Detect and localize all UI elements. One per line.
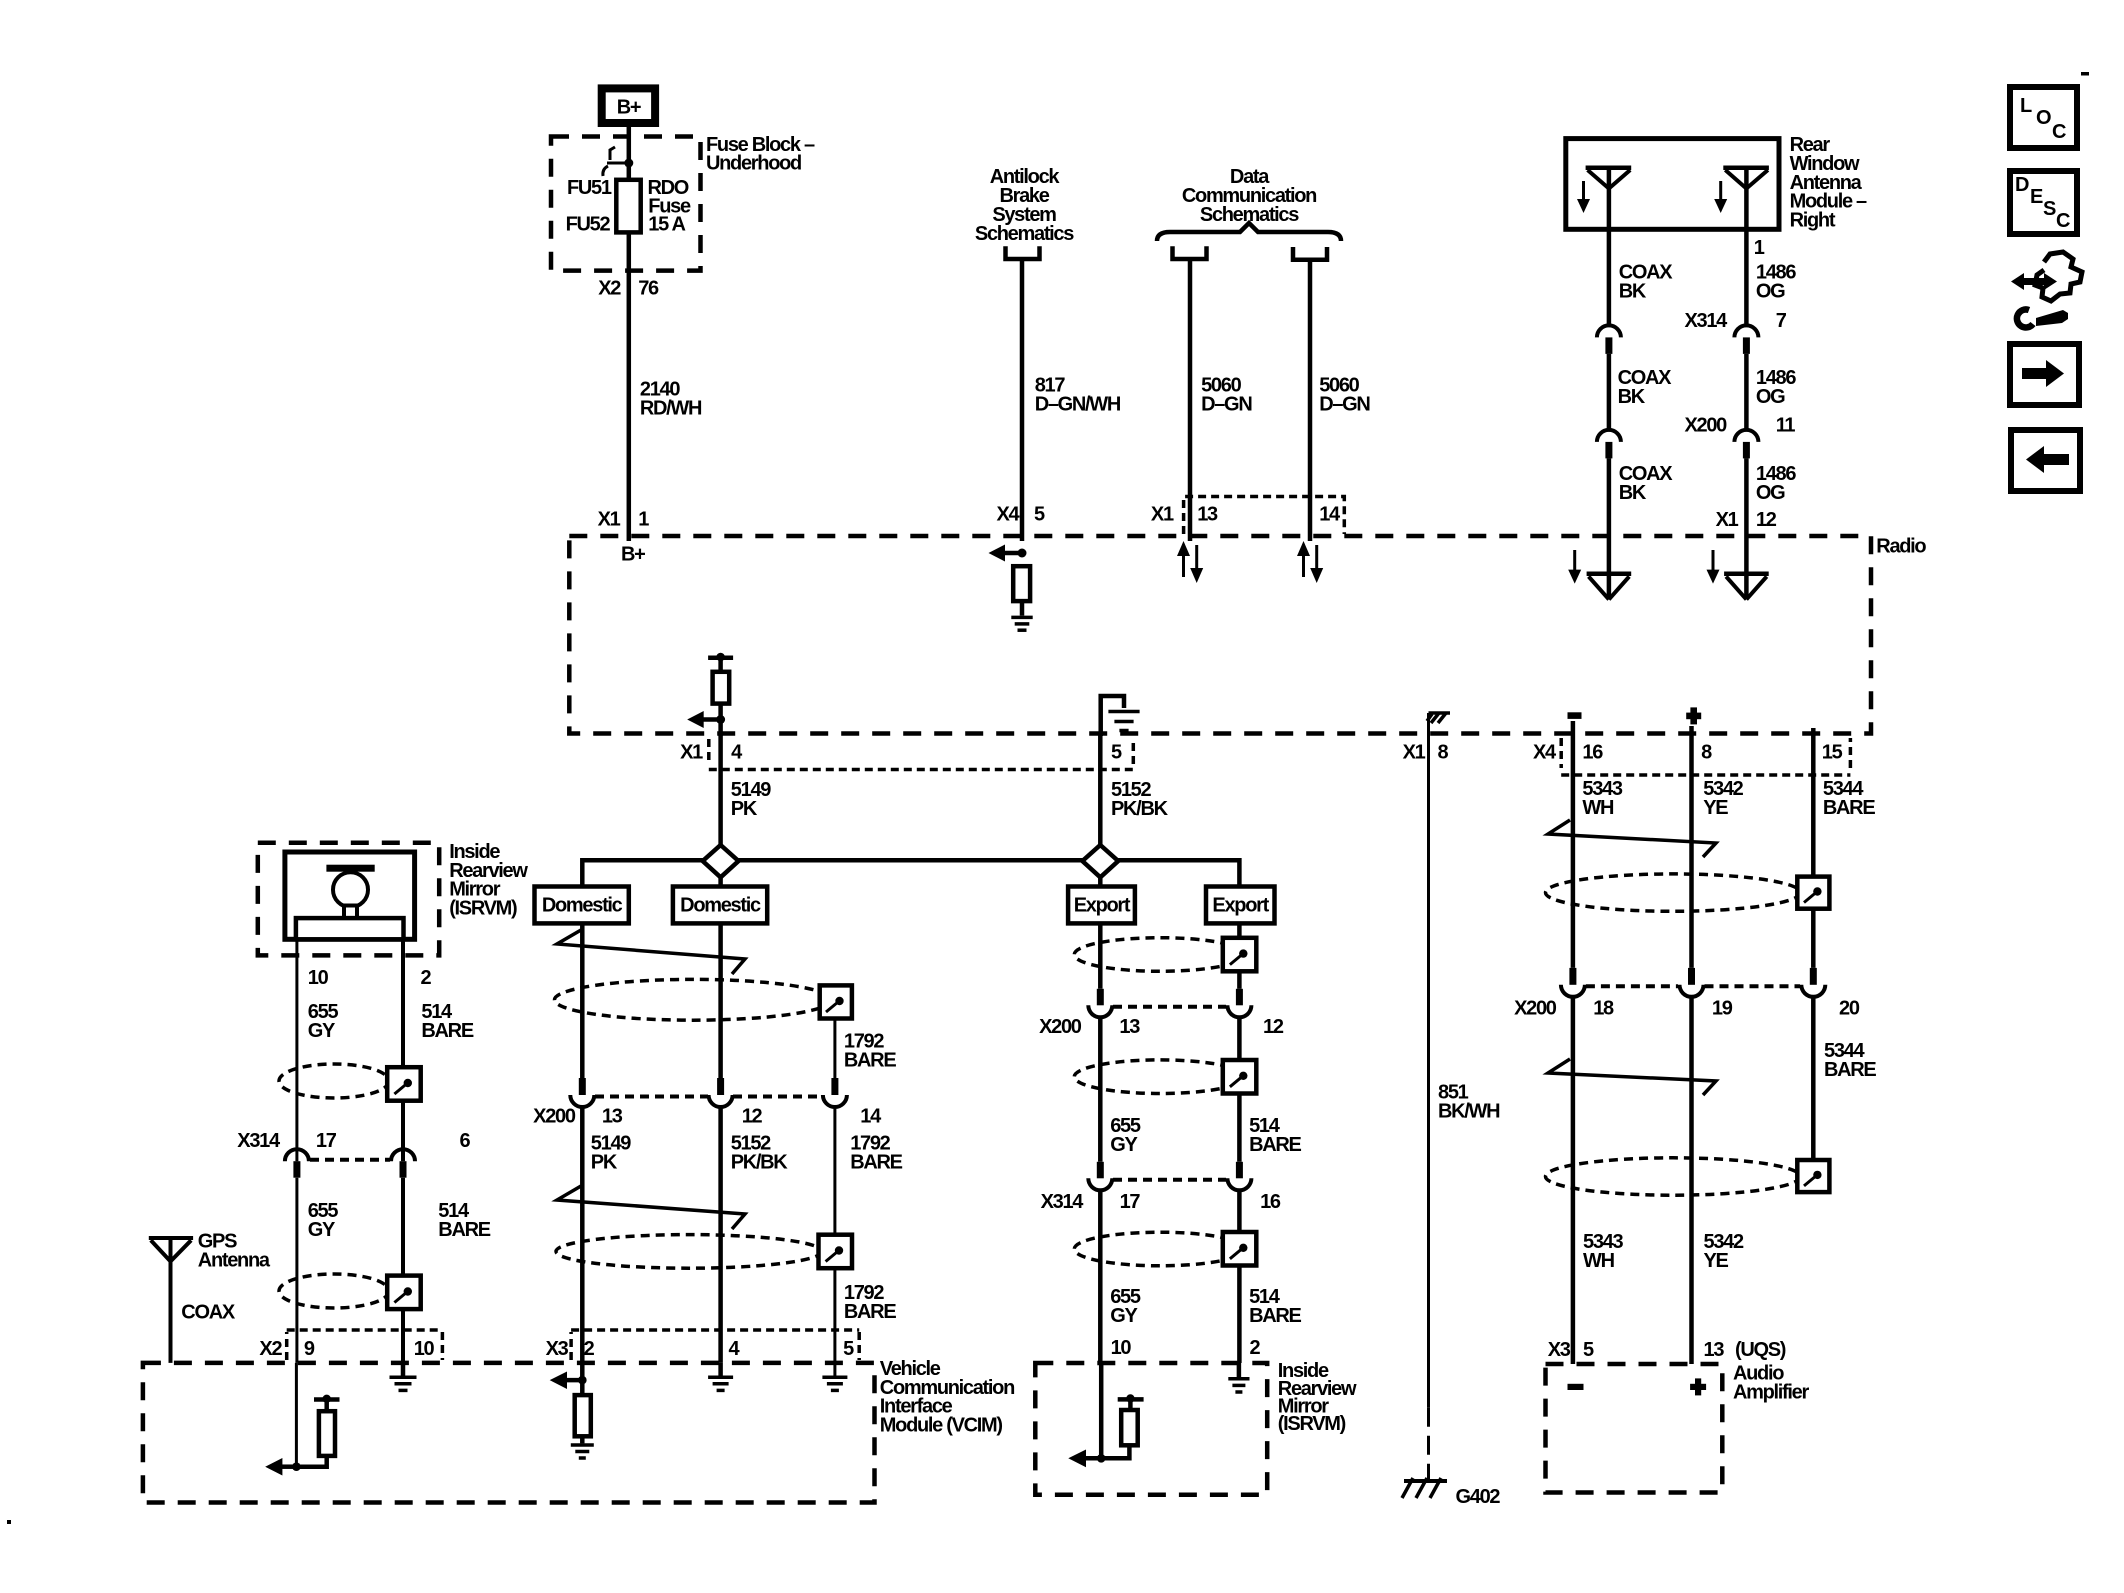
- svg-text:14: 14: [1319, 504, 1341, 526]
- wire label 5343 WH top: [1582, 778, 1622, 819]
- svg-text:15: 15: [1822, 742, 1843, 764]
- wire label 514 BARE export lower: [1249, 1286, 1301, 1327]
- wire 5344 BARE to lower shield: [1811, 997, 1816, 1160]
- shield drain box 3 export: [1223, 1232, 1257, 1266]
- svg-text:BARE: BARE: [438, 1219, 490, 1241]
- label RDO Fuse 15 A: [648, 177, 691, 236]
- wire 5152 PK/BK radio to diamond: [1098, 733, 1103, 887]
- wire 1486 OG from module pin 1: [1744, 168, 1749, 325]
- svg-text:X2: X2: [598, 278, 621, 300]
- wire label 5149 PK: [731, 779, 771, 820]
- wire 514 BARE export lower: [1237, 1190, 1242, 1232]
- shield ellipse upper amp: [1546, 874, 1801, 911]
- svg-text:5: 5: [843, 1338, 854, 1360]
- rear window antenna module box: [1566, 139, 1779, 230]
- component name ISRVM top: [449, 841, 528, 919]
- svg-text:11: 11: [1776, 415, 1796, 437]
- minus terminal pin16 inside radio: [1568, 712, 1582, 719]
- wire box to X314 pin6: [401, 1101, 405, 1162]
- icon box LOC: [2010, 87, 2077, 148]
- icon box arrow left: [2011, 430, 2080, 491]
- icon box arrow right: [2010, 344, 2079, 405]
- svg-text:10: 10: [308, 967, 329, 989]
- svg-text:X4: X4: [1533, 742, 1557, 764]
- svg-text:S: S: [2043, 198, 2056, 220]
- wire label 514 BARE upper left col: [421, 1001, 473, 1042]
- svg-text:WH: WH: [1583, 1250, 1615, 1272]
- wire label 655 GY lower left col: [308, 1200, 339, 1241]
- inline connector X200 pin12: [709, 1078, 733, 1107]
- wire box3 to ISRVM2: [1237, 1266, 1242, 1364]
- svg-text:2: 2: [584, 1338, 595, 1360]
- svg-text:Domestic: Domestic: [680, 895, 761, 917]
- svg-text:20: 20: [1839, 998, 1860, 1020]
- svg-text:BARE: BARE: [844, 1301, 896, 1323]
- wire 5060 D-GN right: [1308, 260, 1313, 541]
- svg-text:Export: Export: [1212, 895, 1269, 917]
- shield ellipse upper ISRVM col: [279, 1064, 389, 1098]
- svg-text:12: 12: [1756, 509, 1777, 531]
- wire bar to resistor: [718, 658, 723, 672]
- wire COAX BK mid: [1607, 354, 1612, 430]
- svg-text:Radio: Radio: [1876, 536, 1926, 558]
- svg-text:BK: BK: [1619, 281, 1647, 303]
- svg-text:12: 12: [742, 1106, 763, 1128]
- resistor pin9 branch VCIM: [319, 1411, 335, 1456]
- pin X2 9: [259, 1338, 314, 1360]
- GPS antenna symbol: [149, 1238, 193, 1261]
- mirror housing box: [285, 852, 415, 939]
- inline connector X314 pin 7 right: [1734, 325, 1758, 354]
- svg-text:OG: OG: [1756, 482, 1785, 504]
- terminal bar with node above resistor ISRVM2: [1118, 1394, 1144, 1410]
- wire 5152 PK/BK to VCIM: [718, 1107, 723, 1363]
- svg-text:Module (VCIM): Module (VCIM): [880, 1414, 1003, 1436]
- left arrow with junction pin9 VCIM: [265, 1458, 301, 1476]
- terminal hook symbol: [603, 147, 615, 176]
- wire label 1792 BARE bottom: [844, 1282, 896, 1323]
- wire label 5343 WH lower: [1583, 1231, 1623, 1272]
- svg-text:5: 5: [1034, 504, 1045, 526]
- svg-text:19: 19: [1712, 998, 1733, 1020]
- wire label 5342 YE lower: [1704, 1231, 1744, 1272]
- mirror symbol: [296, 865, 404, 940]
- shield drain box upper VCIM: [820, 985, 852, 1018]
- wire label 655 GY export lower: [1110, 1286, 1141, 1327]
- pin X4 16: [1533, 742, 1603, 764]
- svg-text:X1: X1: [1403, 742, 1426, 764]
- svg-text:WH: WH: [1582, 797, 1614, 819]
- svg-text:8: 8: [1438, 742, 1449, 764]
- pin X1 1: [598, 509, 650, 531]
- inline connector X200 pin12 export: [1227, 989, 1251, 1018]
- svg-text:X200: X200: [1514, 998, 1557, 1020]
- svg-text:X314: X314: [1684, 310, 1728, 332]
- shield ellipse lower amp: [1546, 1158, 1801, 1195]
- svg-text:76: 76: [638, 278, 659, 300]
- svg-text:X4: X4: [997, 504, 1021, 526]
- svg-text:FU52: FU52: [566, 214, 611, 236]
- svg-text:Right: Right: [1790, 209, 1836, 231]
- svg-text:GY: GY: [308, 1020, 336, 1042]
- svg-text:(ISRVM): (ISRVM): [449, 897, 517, 919]
- svg-text:X1: X1: [1151, 504, 1174, 526]
- svg-text:X2: X2: [259, 1338, 282, 1360]
- ground pin2 VCIM: [571, 1445, 594, 1458]
- wire 5343 WH to amp: [1571, 997, 1576, 1364]
- twisted pair symbol upper: [557, 930, 745, 974]
- svg-text:FU51: FU51: [567, 177, 612, 199]
- connector group dotted box X4 16-8-15: [1561, 738, 1850, 775]
- wire box1 to X200 export: [1237, 971, 1242, 989]
- ABS branch inside radio: left arrow: [989, 545, 1027, 562]
- svg-text:PK/BK: PK/BK: [731, 1152, 789, 1174]
- svg-text:PK/BK: PK/BK: [1111, 798, 1169, 820]
- connector dashes X200 row amp: [1586, 984, 1800, 988]
- inline connector X200 pin 11 right: [1734, 430, 1758, 458]
- svg-text:X3: X3: [546, 1338, 569, 1360]
- label X314 17 16 export: [1041, 1191, 1281, 1213]
- svg-text:YE: YE: [1703, 797, 1728, 819]
- wire 851 BK/WH: [1427, 733, 1430, 1479]
- splice diamond node pin5: [1082, 845, 1118, 877]
- shield ellipse lower VCIM: [556, 1235, 822, 1269]
- wire label 514 BARE export mid: [1249, 1115, 1301, 1156]
- minus terminal inside amp: [1568, 1384, 1584, 1390]
- svg-text:BK/WH: BK/WH: [1438, 1101, 1500, 1123]
- connector group dotted box X2 9-10: [287, 1330, 443, 1360]
- bidirectional arrows pin 14: [1297, 541, 1323, 583]
- wire 5060 D-GN left: [1188, 259, 1193, 541]
- svg-text:X3: X3: [1548, 1339, 1571, 1361]
- wire label 1486 OG row1: [1756, 262, 1796, 303]
- wire 5342 YE from radio pin8: [1689, 726, 1694, 968]
- label GPS Antenna: [198, 1231, 271, 1272]
- drain wire 1792 BARE upper: [833, 1019, 836, 1079]
- shield ellipse 3 export: [1074, 1232, 1245, 1266]
- wire label 851 BK/WH: [1438, 1081, 1500, 1122]
- inline connector X314 pin17 export: [1088, 1162, 1112, 1191]
- wire label 514 BARE lower left col: [438, 1200, 490, 1241]
- ISRVM dashed box bottom: [1035, 1363, 1267, 1495]
- drain wire 1792 BARE lower: [833, 1107, 836, 1363]
- svg-text:OG: OG: [1756, 386, 1785, 408]
- icon box DESC: [2010, 171, 2077, 234]
- junction node in fuse block: [607, 159, 633, 168]
- svg-text:D–GN: D–GN: [1319, 394, 1370, 416]
- svg-text:2: 2: [1250, 1337, 1261, 1359]
- wire label 2140 RD/WH: [640, 379, 702, 420]
- wire 5149 PK radio to diamond: [718, 733, 723, 887]
- svg-text:BARE: BARE: [1249, 1305, 1301, 1327]
- shield drain box lower ISRVM col: [387, 1276, 421, 1310]
- wire label 5060 D-GN left: [1201, 375, 1252, 416]
- wire label 5342 YE top: [1703, 778, 1743, 819]
- wire pin2 X3 inside VCIM: [580, 1363, 585, 1395]
- coax wire GPS to VCIM: [169, 1238, 173, 1363]
- component name Rear Window Antenna Module Right: [1790, 134, 1867, 231]
- svg-text:Antenna: Antenna: [198, 1250, 271, 1272]
- resistor ISRVM2: [1121, 1410, 1138, 1445]
- svg-text:BK: BK: [1618, 386, 1646, 408]
- svg-text:BARE: BARE: [850, 1152, 902, 1174]
- wire pin9 inside VCIM: [295, 1363, 298, 1467]
- inline connector X200 pin14: [823, 1078, 847, 1107]
- svg-text:RD/WH: RD/WH: [640, 398, 702, 420]
- svg-text:GY: GY: [1110, 1305, 1138, 1327]
- antenna terminal left inside radio: [1587, 536, 1632, 599]
- plus terminal pin8 inside radio: [1686, 707, 1701, 724]
- connector group dotted box X1 13-14: [1184, 497, 1345, 535]
- inline connector X314 pin16 export: [1227, 1162, 1251, 1191]
- off-page connector bracket data right: [1293, 247, 1327, 260]
- svg-text:10: 10: [414, 1338, 435, 1360]
- connector group dotted box X1 4-5: [709, 739, 1134, 770]
- wire label 5152 PK/BK: [1111, 779, 1169, 820]
- twisted pair symbol lower: [557, 1186, 745, 1229]
- wire 5342 YE to amp: [1689, 997, 1694, 1364]
- pin X1 13: [1151, 504, 1218, 526]
- svg-text:15 A: 15 A: [648, 214, 685, 236]
- svg-text:Amplifier: Amplifier: [1733, 1382, 1809, 1404]
- svg-text:17: 17: [316, 1130, 337, 1152]
- ground pin2 ISRVM2: [1228, 1379, 1249, 1392]
- svg-text:9: 9: [304, 1338, 315, 1360]
- wire 655 GY pin10 ISRVM: [295, 939, 298, 1161]
- chassis ground stub pin8 inside radio: [1427, 713, 1450, 736]
- inline connector X314 pin17 left col: [285, 1149, 309, 1178]
- svg-text:C: C: [2052, 121, 2066, 143]
- ground pin5 inside radio: [1108, 712, 1139, 731]
- svg-text:D: D: [2015, 174, 2029, 196]
- wire resistor to ground VCIM: [580, 1436, 585, 1443]
- svg-text:14: 14: [860, 1106, 882, 1128]
- VCIM dashed box: [143, 1363, 875, 1503]
- svg-text:GY: GY: [1110, 1134, 1138, 1156]
- svg-text:C: C: [2056, 210, 2070, 232]
- wire resistor to junction VCIM: [296, 1456, 326, 1467]
- shield ellipse upper VCIM: [555, 979, 832, 1020]
- twisted pair symbol lower amp: [1548, 1059, 1716, 1095]
- shield drain box lower amp: [1797, 1160, 1829, 1192]
- inline connector X200 pin20: [1801, 968, 1825, 997]
- svg-text:12: 12: [1263, 1016, 1284, 1038]
- shield drain box 1 export: [1223, 938, 1257, 972]
- svg-text:B+: B+: [621, 543, 645, 565]
- svg-text:13: 13: [602, 1106, 623, 1128]
- component name Audio Amplifier: [1733, 1363, 1809, 1404]
- svg-text:(UQS): (UQS): [1735, 1339, 1786, 1361]
- stray mark top right: [2081, 72, 2089, 76]
- inline connector X200 pin13: [570, 1078, 594, 1107]
- svg-text:16: 16: [1260, 1191, 1281, 1213]
- label X200 13 12 14: [533, 1106, 882, 1128]
- power symbol B+: [602, 88, 655, 123]
- svg-text:10: 10: [1111, 1337, 1132, 1359]
- pin X1 4: [680, 742, 743, 764]
- svg-text:6: 6: [460, 1130, 471, 1152]
- svg-text:PK: PK: [731, 798, 758, 820]
- resistor pin4 inside radio: [713, 672, 730, 704]
- svg-text:D–GN: D–GN: [1201, 394, 1252, 416]
- svg-text:G402: G402: [1456, 1486, 1501, 1508]
- svg-text:YE: YE: [1704, 1250, 1729, 1272]
- svg-text:1: 1: [1754, 237, 1765, 259]
- wire label 1486 OG row2: [1756, 367, 1796, 408]
- wire resistor to junction: [718, 704, 723, 736]
- svg-text:X200: X200: [533, 1106, 576, 1128]
- pin X4 5: [997, 504, 1045, 526]
- svg-text:B+: B+: [617, 97, 641, 119]
- wire 5152 PK/BK domestic right: [718, 923, 723, 1078]
- pin4 terminal bar with node inside radio: [708, 653, 733, 662]
- shield ellipse 2 export: [1074, 1060, 1245, 1094]
- left arrow with junction pin2 VCIM: [550, 1372, 587, 1390]
- inline connector X314 pin6 left col: [391, 1149, 415, 1178]
- shield ellipse 1 export: [1074, 938, 1245, 972]
- svg-text:Domestic: Domestic: [542, 895, 623, 917]
- left arrow with junction ISRVM2: [1068, 1450, 1105, 1468]
- antenna symbol right in module: [1723, 168, 1769, 189]
- wire 655 GY export left: [1098, 923, 1103, 988]
- svg-text:X200: X200: [1684, 415, 1727, 437]
- resistor pin2 VCIM: [575, 1395, 591, 1436]
- wire resistor to ground: [1020, 601, 1025, 616]
- label X314 7: [1684, 310, 1786, 332]
- shield drain box upper ISRVM col: [387, 1067, 421, 1101]
- svg-text:13: 13: [1119, 1016, 1140, 1038]
- pin X1 8: [1403, 742, 1449, 764]
- brace over data wires: [1157, 223, 1341, 241]
- wire label 817 D-GN/WH: [1035, 375, 1121, 416]
- svg-text:13: 13: [1197, 504, 1218, 526]
- down arrow left in module: [1577, 181, 1590, 213]
- off-page connector bracket ABS: [1006, 246, 1040, 259]
- off-page connector bracket data left: [1173, 246, 1207, 259]
- svg-text:17: 17: [1120, 1191, 1141, 1213]
- wire 5343 WH from radio pin16: [1571, 721, 1576, 968]
- ground ABS inside radio: [1011, 617, 1032, 630]
- wire 655 GY to VCIM: [295, 1178, 298, 1363]
- ISRVM dashed box top: [258, 843, 439, 956]
- stray dot bottom left: [7, 1520, 11, 1524]
- wire label 655 GY upper left col: [308, 1001, 339, 1042]
- option box Domestic 1: [535, 887, 629, 924]
- shield drain box upper amp: [1797, 877, 1829, 909]
- svg-text:Export: Export: [1074, 895, 1131, 917]
- wire label 5060 D-GN right: [1319, 375, 1370, 416]
- svg-text:PK: PK: [591, 1152, 618, 1174]
- label X314 17 6: [237, 1130, 470, 1152]
- pin X3 2: [546, 1338, 595, 1360]
- svg-text:BK: BK: [1619, 482, 1647, 504]
- wire pin10 inside ISRVM2: [1099, 1363, 1104, 1458]
- option box Export 1: [1068, 887, 1135, 924]
- svg-text:Underhood: Underhood: [706, 153, 801, 175]
- wire 2140 RD/WH from B+ to Radio pin X1:1: [627, 127, 632, 541]
- connector dashes X314 row left col: [310, 1158, 390, 1162]
- svg-text:18: 18: [1593, 998, 1614, 1020]
- wire COAX BK from module: [1607, 168, 1612, 325]
- svg-text:BARE: BARE: [844, 1050, 896, 1072]
- ground pin4 VCIM: [708, 1377, 733, 1390]
- svg-text:BARE: BARE: [1823, 797, 1875, 819]
- connector dashes X200 row export: [1113, 1005, 1226, 1009]
- wire 655 GY export lower: [1098, 1190, 1103, 1363]
- pin X3 5 amp: [1548, 1339, 1594, 1361]
- connector group dotted box X3 2-4-5: [571, 1330, 859, 1360]
- svg-text:X200: X200: [1039, 1016, 1082, 1038]
- wire box to X200 pin20 amp: [1811, 909, 1816, 968]
- inline connector X200 pin18: [1561, 968, 1585, 997]
- svg-text:Schematics: Schematics: [975, 223, 1074, 245]
- svg-text:O: O: [2036, 107, 2051, 129]
- down arrow at right antenna terminal: [1707, 550, 1720, 584]
- down arrow at left antenna terminal: [1568, 550, 1581, 584]
- svg-text:5: 5: [1583, 1339, 1594, 1361]
- fuse FU51/FU52 RDO 15 A: [616, 180, 640, 233]
- svg-text:5: 5: [1111, 742, 1122, 764]
- svg-text:1: 1: [638, 509, 649, 531]
- svg-text:E: E: [2030, 186, 2043, 208]
- antenna terminal right inside radio: [1724, 536, 1769, 599]
- svg-text:X1: X1: [598, 509, 621, 531]
- wire label 5152 PK/BK lower: [731, 1133, 789, 1174]
- pin 13 UQS amp: [1704, 1339, 1786, 1361]
- bidirectional arrows pin 13: [1177, 541, 1203, 583]
- ground G402: [1402, 1478, 1500, 1508]
- terminal bar with node above resistor VCIM: [314, 1395, 340, 1412]
- svg-text:BARE: BARE: [421, 1020, 473, 1042]
- svg-text:X314: X314: [237, 1130, 281, 1152]
- connector dashes X314 row export: [1113, 1178, 1226, 1182]
- wire label 1486 OG row3: [1756, 463, 1796, 504]
- wire 5149 PK domestic left: [580, 923, 585, 1078]
- plus terminal inside amp: [1690, 1378, 1706, 1395]
- component name Fuse Block Underhood: [706, 134, 815, 175]
- wire pin10 to ground VCIM: [401, 1363, 406, 1376]
- wire label 5149 PK lower: [591, 1133, 631, 1174]
- svg-text:D–GN/WH: D–GN/WH: [1035, 394, 1121, 416]
- svg-text:BARE: BARE: [1249, 1134, 1301, 1156]
- label X200 18 19 20: [1514, 998, 1860, 1020]
- wire resistor to junction ISRVM2: [1101, 1445, 1129, 1458]
- wire 514 BARE to VCIM: [401, 1178, 405, 1363]
- svg-text:X1: X1: [1716, 509, 1739, 531]
- label Antilock Brake System Schematics: [975, 166, 1074, 245]
- wire label 5344 BARE mid: [1824, 1040, 1876, 1081]
- wire label 1792 BARE mid: [850, 1133, 902, 1174]
- resistor ABS inside radio: [1013, 566, 1030, 601]
- component name ISRVM bottom: [1278, 1360, 1357, 1435]
- antenna symbol left in module: [1586, 168, 1632, 189]
- svg-text:7: 7: [1776, 310, 1787, 332]
- connector dashes X200 row VCIM: [595, 1095, 822, 1099]
- wire 1486 OG lower: [1744, 458, 1749, 536]
- svg-text:13: 13: [1704, 1339, 1725, 1361]
- wire label COAX BK row1: [1619, 262, 1674, 303]
- wire 655 GY export mid: [1098, 1017, 1103, 1162]
- wire 514 BARE export mid: [1237, 1017, 1242, 1060]
- svg-text:8: 8: [1701, 742, 1712, 764]
- wire 1486 OG mid: [1744, 354, 1749, 430]
- wire 5149 PK to VCIM: [580, 1107, 585, 1363]
- audio amplifier dashed box: [1546, 1364, 1723, 1493]
- inline connector X200 pin13 export: [1088, 989, 1112, 1018]
- svg-text:OG: OG: [1756, 281, 1785, 303]
- wire label 5344 BARE top: [1823, 778, 1875, 819]
- pin X2 76: [598, 278, 659, 300]
